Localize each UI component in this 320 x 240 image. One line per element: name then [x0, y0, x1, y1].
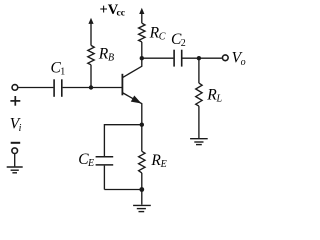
- ground (input): [7, 167, 23, 173]
- capacitor CE: [96, 157, 114, 165]
- capacitor C1: [54, 79, 62, 97]
- resistor RC: [139, 23, 145, 42]
- wire collector to C2: [142, 57, 174, 59]
- terminal Vo: [222, 55, 228, 61]
- label Vi: [10, 116, 22, 135]
- transistor Q1 base bar: [121, 74, 123, 96]
- node base junction: [89, 85, 93, 89]
- transistor Q1 collector lead: [123, 58, 142, 77]
- svg-text:2: 2: [181, 38, 186, 49]
- resistor RL: [198, 58, 200, 83]
- ground (RE): [133, 205, 151, 211]
- power +Vcc arrow (RC branch): [139, 8, 144, 14]
- + polarity mark: [10, 96, 20, 106]
- svg-text:E: E: [87, 158, 94, 169]
- resistor RE: [141, 125, 143, 152]
- wire emitter rail bottom: [104, 189, 141, 191]
- svg-text:B: B: [108, 53, 114, 64]
- label +Vcc: [100, 2, 125, 19]
- wire CE branch upper: [103, 124, 105, 156]
- - polarity mark: [11, 142, 21, 144]
- wire base left: [18, 87, 53, 89]
- svg-text:o: o: [241, 57, 246, 68]
- node RE bottom junction: [139, 187, 144, 192]
- transistor Q1 emitter lead: [123, 93, 142, 125]
- wire base right: [63, 87, 122, 89]
- wire to ground (input): [14, 154, 16, 167]
- svg-text:i: i: [19, 123, 22, 134]
- node Vi- terminal: [12, 148, 18, 154]
- node output junction: [197, 56, 201, 60]
- label C2: [171, 31, 186, 49]
- label C1: [51, 60, 66, 78]
- transistor Q1 emitter arrow: [131, 96, 142, 104]
- power +Vcc arrow (RB branch): [88, 18, 93, 24]
- wire to ground (RE): [141, 190, 143, 205]
- svg-text:E: E: [160, 159, 167, 170]
- label RB: [98, 46, 114, 64]
- svg-text:L: L: [216, 94, 223, 105]
- wire CE branch lower: [103, 166, 105, 190]
- wire C2 to Vo: [183, 57, 222, 59]
- node emitter junction: [140, 123, 144, 127]
- label RL: [206, 87, 222, 105]
- label Vo: [232, 50, 246, 69]
- node Vi+ terminal: [12, 85, 18, 91]
- svg-text:1: 1: [60, 67, 65, 78]
- label RE: [150, 152, 166, 170]
- wire emitter rail top: [104, 124, 141, 126]
- ground (RL): [190, 139, 208, 145]
- svg-text:C: C: [159, 32, 166, 43]
- capacitor C2: [174, 50, 182, 67]
- resistor RB: [88, 45, 94, 64]
- svg-text:cc: cc: [117, 9, 125, 19]
- label CE: [78, 151, 94, 169]
- node collector junction: [140, 56, 144, 60]
- label RC: [149, 25, 166, 43]
